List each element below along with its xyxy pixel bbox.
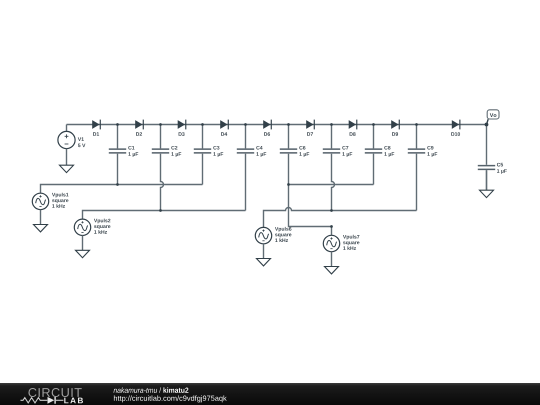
capacitor C7 (1 uF) [323, 146, 352, 157]
wire: top rail node to C7 top [331, 125, 333, 149]
ground (Vpuls7) [325, 252, 339, 274]
wire: C3 bottom to bus 1 end [202, 154, 204, 185]
voltage source V1 (5 V) [58, 131, 86, 148]
voltage source Vpuls7 (square 1 kHz) [323, 235, 359, 252]
capacitor C1 (1 uF) [109, 146, 138, 157]
diode D2 [135, 120, 144, 136]
node: top rail at C8 [372, 123, 375, 126]
node: top rail at C6 [287, 123, 290, 126]
capacitor C8 (1 uF) [365, 146, 394, 157]
wire: top rail node to C9 top [416, 125, 418, 149]
voltage source Vpuls2 (square 1 kHz) [74, 219, 110, 236]
wire: C5 bottom to ground [486, 170, 488, 190]
wire: phase bus 1 (Vpuls1 to C3) [41, 185, 203, 194]
capacitor C6 (1 uF) [280, 146, 309, 157]
node: top rail at C3 [201, 123, 204, 126]
node: top rail at C9 [415, 123, 418, 126]
node: C7 on bus 4 [330, 209, 333, 212]
wire: V1 top stub [66, 125, 68, 132]
wire: top rail from V1 to Vo node [67, 124, 487, 126]
diode D1 [92, 120, 101, 136]
diode D7 [306, 120, 315, 136]
wire: C1 bottom to phase bus 1 [117, 154, 119, 185]
wire: C9 bottom to bus 4 end [416, 154, 418, 211]
wire: C6 bottom down to corner, right to Vpuls7 node [289, 154, 332, 227]
capacitor C5 (1 uF) [478, 163, 507, 174]
wire: phase bus 4 (Vpuls6 to C9, hopping over C6 wire) [264, 208, 417, 228]
wire: C8 bottom to bus 3 end [373, 154, 375, 185]
diode D9 [391, 120, 400, 136]
wire: top rail node to C6 top [288, 125, 290, 149]
node: C6 on bus 3 [287, 183, 290, 186]
node: top rail at C7 [330, 123, 333, 126]
wire: phase bus 2 (Vpuls2 to C4) [83, 211, 246, 220]
node: C1 on bus 1 [116, 183, 119, 186]
footer: url [114, 395, 227, 402]
footer bar [0, 383, 540, 405]
capacitor C2 (1 uF) [152, 146, 181, 157]
net flag Vo [487, 110, 499, 119]
wire: C2 bottom down, hopping over bus 1 [161, 154, 164, 211]
node: top rail at C4 [244, 123, 247, 126]
ground (Vpuls1) [34, 210, 48, 232]
footer: circuit name [114, 387, 189, 393]
node: C2 on bus 2 [159, 209, 162, 212]
ground (C5 output) [480, 170, 494, 197]
diode D4 [220, 120, 229, 136]
wire: top rail node to C3 top [202, 125, 204, 149]
capacitor C3 (1 uF) [194, 146, 223, 157]
wire: top rail node to C2 top [160, 125, 162, 149]
voltage source Vpuls6 (square 1 kHz) [255, 227, 291, 244]
wire: Vo node down to C5 top [486, 125, 488, 165]
diode D6 [263, 120, 272, 136]
CircuitLab logo [21, 388, 83, 404]
ground (V1) [60, 149, 74, 173]
diode D3 [178, 120, 187, 136]
wire: C4 bottom to bus 2 end [245, 154, 247, 211]
capacitor C4 (1 uF) [237, 146, 266, 157]
node Vo [485, 123, 489, 127]
ground (Vpuls6) [257, 244, 271, 266]
node: top rail at C1 [116, 123, 119, 126]
diode D8 [349, 120, 358, 136]
voltage source Vpuls1 (square 1 kHz) [32, 193, 68, 210]
diode D10 [451, 120, 460, 136]
wire: phase bus 3 (C6 node to C8) [289, 184, 374, 186]
node: top rail at C2 [159, 123, 162, 126]
wire: top rail node to C4 top [245, 125, 247, 149]
wire: Vpuls7 top stub [331, 227, 333, 236]
ground (Vpuls2) [76, 236, 90, 258]
wire: top rail node to C1 top [117, 125, 119, 149]
capacitor C9 (1 uF) [408, 146, 437, 157]
wire: Vo flag connector [487, 119, 489, 124]
wire: C7 bottom down, hopping over bus 3 [332, 154, 335, 211]
node: Vpuls7 / C6 corner [330, 225, 333, 228]
wire: top rail node to C8 top [373, 125, 375, 149]
